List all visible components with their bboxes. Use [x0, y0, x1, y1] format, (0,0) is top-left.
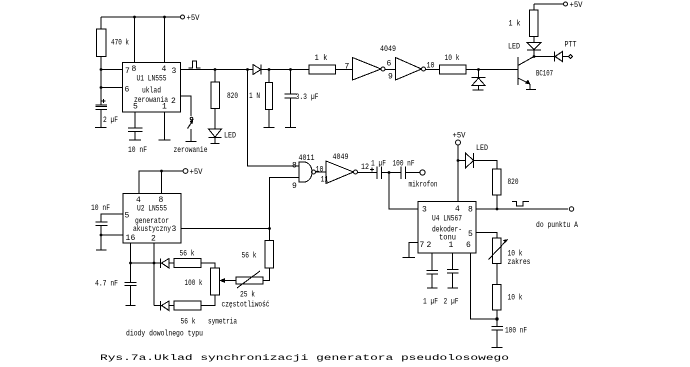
- resistor 820 at U4: [493, 169, 502, 209]
- ground below 1uF: [427, 287, 438, 289]
- wire U4 pin8 to output terminal: [476, 208, 568, 210]
- svg-text:6: 6: [387, 60, 392, 69]
- capacitor 10nF: [128, 128, 143, 140]
- svg-text:9: 9: [388, 73, 393, 82]
- junction dot pin6 node: [129, 262, 132, 265]
- svg-text:+5V: +5V: [453, 132, 466, 141]
- svg-text:4.7 nF: 4.7 nF: [95, 280, 118, 289]
- power +5V terminal at U2: [183, 168, 203, 177]
- svg-text:LED: LED: [224, 132, 236, 141]
- capacitor 10nF at U2: [96, 222, 108, 235]
- power +5V terminal: [181, 14, 200, 23]
- junction dot 820 branch: [214, 68, 217, 71]
- svg-text:1 µF: 1 µF: [423, 298, 438, 307]
- diode series D2: [253, 65, 261, 75]
- resistor 10k horizontal: [440, 65, 467, 74]
- svg-text:3: 3: [422, 206, 427, 215]
- op-amp U4 LN567 IC box: [418, 202, 476, 254]
- wire 56k top to pin3 node: [269, 229, 271, 241]
- svg-text:LED: LED: [508, 43, 520, 52]
- wire junction down to U4 pin3: [389, 173, 418, 210]
- resistor 56k top row: [174, 259, 201, 268]
- potentiometer 10k zakres: [489, 238, 509, 264]
- svg-text:3.3 µF: 3.3 µF: [296, 93, 319, 102]
- svg-text:100 nF: 100 nF: [393, 160, 415, 169]
- ground below pin1: [159, 139, 171, 141]
- wire U2 pin4 to +5V: [139, 171, 183, 194]
- wire U4 pin5 to potentiometer: [476, 233, 497, 239]
- capacitor 1uF at U4: [427, 271, 439, 289]
- diode clamp to ground: [472, 70, 486, 91]
- svg-text:6: 6: [466, 241, 471, 250]
- svg-text:mikrofon: mikrofon: [409, 181, 438, 190]
- wire pin8 of U1 to +5V rail: [134, 17, 136, 63]
- svg-text:12: 12: [361, 163, 369, 172]
- LED D1 indicator: [209, 129, 222, 144]
- wire pin7 of U1: [101, 69, 123, 71]
- wire +5V top rail: [101, 16, 181, 18]
- wire pin2 of U1 to switch: [181, 96, 192, 116]
- svg-text:820: 820: [508, 178, 519, 187]
- svg-text:4049: 4049: [380, 45, 396, 54]
- capacitor 100nF: [401, 167, 406, 180]
- inverter U3a 4049: [353, 58, 386, 81]
- svg-text:2: 2: [427, 241, 432, 250]
- ground below 1N: [264, 127, 275, 129]
- LED D3 top right: [527, 43, 541, 57]
- NAND gate U5 4011: [299, 162, 316, 182]
- svg-text:56 k: 56 k: [180, 250, 195, 259]
- terminal mikrofon: [420, 170, 425, 175]
- svg-text:10 nF: 10 nF: [91, 204, 110, 213]
- svg-text:11: 11: [321, 176, 329, 185]
- svg-text:10 nF: 10 nF: [128, 146, 147, 155]
- power +5V terminal top right: [564, 1, 583, 10]
- op-amp U2 LN555 IC box: [123, 194, 181, 244]
- wire U4 pin1 down: [452, 253, 454, 270]
- ground below 4.7nF: [126, 305, 136, 307]
- svg-text:8: 8: [292, 162, 297, 171]
- ground below clamp diode: [473, 89, 484, 91]
- svg-text:100 nF: 100 nF: [505, 327, 527, 336]
- ground below 2uF: [95, 127, 107, 129]
- svg-text:8: 8: [468, 206, 473, 215]
- wire 10k to transistor base: [466, 69, 518, 71]
- junction dot: [163, 16, 166, 19]
- capacitor 100nF bottom right: [492, 327, 504, 348]
- wire NAND output to inverter: [316, 171, 327, 173]
- svg-text:2: 2: [171, 97, 176, 106]
- power +5V terminal at U4: [453, 132, 466, 146]
- terminal do punktu A: [569, 207, 573, 211]
- svg-text:1 µF: 1 µF: [371, 160, 386, 169]
- svg-text:zerowanie: zerowanie: [174, 146, 208, 155]
- wire 1uF to 100nF: [382, 172, 402, 174]
- svg-text:820: 820: [227, 92, 238, 101]
- resistor 56k bottom row: [174, 301, 201, 310]
- wire U2 pin6 down: [130, 243, 132, 263]
- svg-text:akustyczny: akustyczny: [133, 225, 171, 234]
- junction dot LED branch: [457, 159, 460, 162]
- diode D4 top row: [161, 259, 175, 269]
- svg-text:zakres: zakres: [508, 258, 531, 267]
- wire pin1 of U1 to ground: [164, 112, 166, 140]
- svg-text:56 k: 56 k: [242, 252, 257, 261]
- junction dot: [160, 170, 163, 173]
- inverter U3b 4049: [396, 58, 426, 81]
- wire LED to 820: [473, 161, 498, 170]
- svg-text:7: 7: [125, 67, 130, 76]
- svg-text:2 µF: 2 µF: [444, 298, 459, 307]
- svg-text:5: 5: [125, 212, 130, 221]
- wire node down to pin6: [100, 70, 102, 88]
- junction dot node pin7: [100, 68, 103, 71]
- terminal PTT diamond: [569, 55, 573, 59]
- wire U4 pin6 down and right: [471, 253, 498, 319]
- capacitor 1uF polarized: [370, 167, 382, 180]
- resistor 820: [211, 70, 220, 130]
- capacitor 3.3uF: [285, 70, 297, 128]
- wire inverter to 10k: [426, 69, 440, 71]
- junction dot node pin6: [100, 86, 103, 89]
- svg-text:diody dowolnego typu: diody dowolnego typu: [126, 330, 203, 339]
- svg-text:8: 8: [132, 65, 137, 74]
- junction dot 1N branch: [268, 68, 271, 71]
- svg-text:+5V: +5V: [190, 168, 203, 177]
- svg-text:9: 9: [292, 182, 297, 191]
- svg-text:4: 4: [162, 65, 167, 74]
- wire U4 pin7 to ground: [409, 243, 418, 258]
- wire top row to 100k: [201, 263, 215, 268]
- svg-text:6: 6: [125, 86, 130, 95]
- potentiometer 100k: [211, 268, 237, 295]
- svg-text:100 k: 100 k: [185, 279, 203, 288]
- junction dot pin6 node: [495, 317, 498, 320]
- ground below 2uF: [448, 287, 459, 289]
- svg-text:10 k: 10 k: [445, 54, 460, 63]
- junction dot to U4: [388, 171, 391, 174]
- wire bottom row to 100k: [201, 295, 215, 306]
- pulse symbol at U1 output: [189, 61, 201, 68]
- wire U1 pin3 output: [181, 69, 254, 71]
- wire U2 pin8 to +5V rail: [161, 171, 163, 194]
- wire pin3 node up to NAND input 9: [270, 178, 300, 229]
- svg-text:6: 6: [131, 234, 136, 243]
- inverter U3c 4049: [326, 161, 358, 184]
- svg-text:+5V: +5V: [570, 1, 583, 10]
- capacitor 2uF polarized: [96, 99, 108, 128]
- svg-text:BC107: BC107: [536, 70, 553, 79]
- svg-text:3: 3: [172, 67, 177, 76]
- junction dot: [133, 16, 136, 19]
- diode D5 bottom row: [154, 301, 174, 311]
- ground below switch: [186, 141, 197, 143]
- svg-text:częstotliwość: częstotliwość: [222, 301, 270, 310]
- wire 25k to 56k vertical: [263, 268, 270, 281]
- junction dot 820 bottom: [496, 208, 499, 211]
- wire pin4 of U1 to +5V rail: [164, 17, 166, 63]
- wire 100nF to mikrofon terminal: [406, 172, 421, 174]
- LED D6 at U4: [458, 153, 474, 168]
- junction dot NAND branch: [246, 68, 249, 71]
- wire U2 pin3 output: [181, 228, 270, 230]
- wire pin6 of U1: [101, 87, 123, 89]
- resistor 1k vertical top right: [530, 4, 539, 43]
- svg-text:3: 3: [172, 225, 177, 234]
- junction dot pin1 node: [100, 234, 103, 237]
- svg-text:2 µF: 2 µF: [103, 116, 118, 125]
- junction dot pin2 node: [153, 262, 156, 265]
- transistor Q1 BC107: [518, 57, 534, 90]
- junction dot clamp diode: [477, 68, 480, 71]
- capacitor 2uF at U4: [447, 270, 459, 289]
- svg-text:56 k: 56 k: [181, 318, 196, 327]
- svg-text:U4 LN567: U4 LN567: [432, 215, 462, 224]
- wire inverter to 1uF cap: [358, 172, 378, 174]
- wire +5V to 1k top right: [534, 3, 564, 5]
- ground below U2 pin1: [96, 249, 107, 251]
- svg-text:7: 7: [345, 63, 350, 72]
- svg-text:zerowania: zerowania: [134, 96, 168, 105]
- wire pin5 of U1 down: [134, 112, 136, 128]
- wire pin6 node to diode row: [131, 262, 161, 264]
- svg-text:do punktu A: do punktu A: [536, 221, 578, 230]
- svg-text:10: 10: [316, 166, 324, 175]
- wire 1k to inverter: [336, 69, 353, 71]
- svg-text:10 k: 10 k: [508, 294, 523, 303]
- switch zerowanie pushbutton: [188, 117, 194, 141]
- svg-text:symetria: symetria: [208, 318, 237, 327]
- svg-text:1 k: 1 k: [315, 54, 328, 63]
- svg-text:1 k: 1 k: [509, 20, 521, 29]
- svg-text:uklad: uklad: [142, 87, 161, 96]
- svg-text:470 k: 470 k: [111, 39, 129, 48]
- wire U2 pin2 down: [153, 243, 155, 306]
- capacitor 4.7nF: [125, 263, 137, 306]
- svg-text:1 N: 1 N: [249, 92, 260, 101]
- ground below 100nF: [492, 347, 503, 349]
- wire after diode: [261, 69, 309, 71]
- svg-text:4: 4: [455, 205, 460, 214]
- svg-text:tonu: tonu: [439, 234, 456, 243]
- svg-text:4049: 4049: [333, 153, 349, 162]
- diode PTT series: [555, 52, 569, 62]
- ground below U4 pin7: [403, 257, 416, 259]
- wire collector node to PTT diode: [534, 56, 555, 58]
- svg-text:U1 LN555: U1 LN555: [137, 75, 167, 84]
- svg-text:5: 5: [468, 230, 473, 239]
- svg-text:7: 7: [420, 241, 425, 250]
- junction dot 3.3uF branch: [289, 68, 292, 71]
- resistor 470k: [97, 17, 107, 70]
- wire node down to capacitor 2uF: [100, 88, 102, 106]
- svg-text:2: 2: [151, 235, 156, 244]
- svg-text:LED: LED: [476, 144, 488, 153]
- resistor 10k vertical: [493, 285, 502, 327]
- wire U2 pin1 to ground: [101, 235, 123, 250]
- wire U4 pin2 down: [431, 253, 433, 271]
- svg-text:+5V: +5V: [187, 14, 200, 23]
- svg-text:U2 LN555: U2 LN555: [137, 205, 167, 214]
- wire U2 pin5 left: [101, 214, 123, 222]
- junction dot collector node: [533, 55, 536, 58]
- wire pot to 10k resistor: [496, 264, 498, 285]
- junction dot pin3 node: [268, 227, 271, 230]
- potentiometer 25k: [236, 271, 263, 288]
- svg-text:Rys.7a.Uklad synchronizacji ge: Rys.7a.Uklad synchronizacji generatora p…: [100, 354, 509, 363]
- wire down to NAND gate input 8: [248, 70, 300, 167]
- resistor 56k vertical: [265, 241, 274, 269]
- svg-text:25 k: 25 k: [240, 291, 255, 300]
- wire U4 pin4 to +5V: [457, 145, 459, 202]
- ground below LED: [211, 143, 220, 145]
- ground below 3.3uF: [285, 127, 296, 129]
- resistor 1 N: [266, 70, 273, 128]
- wire between inverters: [385, 69, 396, 71]
- resistor 1k horizontal: [309, 65, 336, 74]
- ground below emitter: [526, 89, 536, 91]
- ground below 10nF: [129, 139, 141, 141]
- svg-text:PTT: PTT: [565, 41, 577, 50]
- op-amp U1 LN555 IC box: [123, 63, 181, 113]
- pulse symbol at U4 output: [512, 202, 529, 207]
